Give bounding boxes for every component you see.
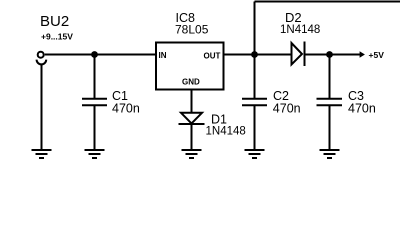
connector BU2: [37, 52, 47, 65]
capacitor C1: [82, 99, 107, 105]
node +5V arrow: [360, 51, 365, 58]
wire C3 to ground: [329, 105, 331, 150]
wire D1 to ground: [191, 124, 193, 150]
wire BU2 to IC8 IN: [45, 54, 155, 56]
svg-text:+9...15V: +9...15V: [41, 32, 73, 42]
svg-text:BU2: BU2: [40, 13, 69, 30]
svg-text:+5V: +5V: [369, 50, 385, 60]
wire junction up to top rail: [254, 2, 256, 55]
svg-text:78L05: 78L05: [175, 23, 209, 37]
svg-text:OUT: OUT: [204, 52, 221, 61]
wire junction to +5V arrow: [330, 54, 361, 56]
IC8 78L05 body: [156, 43, 224, 90]
capacitor C2: [242, 99, 267, 105]
svg-text:1N4148: 1N4148: [206, 126, 246, 138]
capacitor C3: [317, 99, 343, 105]
svg-text:470n: 470n: [348, 102, 376, 116]
diode D2: [292, 42, 305, 67]
node junction above C1: [91, 51, 98, 58]
wire top rail to right edge: [255, 1, 400, 3]
wire C2 to ground: [254, 105, 256, 150]
svg-text:470n: 470n: [273, 102, 301, 116]
svg-text:1N4148: 1N4148: [280, 24, 320, 36]
svg-text:D1: D1: [211, 113, 227, 127]
wire junction down to C3: [329, 55, 331, 99]
ground (C2): [245, 150, 265, 158]
ground (BU2): [32, 150, 52, 158]
wire rail to C1: [94, 55, 96, 99]
svg-text:IN: IN: [159, 51, 167, 60]
wire BU2 sleeve to ground: [41, 64, 43, 150]
wire D2 to junction: [305, 54, 330, 56]
wire IC8 GND to D1: [191, 90, 193, 113]
svg-text:GND: GND: [182, 78, 200, 87]
svg-text:D2: D2: [285, 10, 302, 25]
ground (C1): [85, 150, 105, 158]
wire junction down to C2: [254, 55, 256, 99]
ground (D1): [182, 150, 202, 158]
node junction above C2: [251, 51, 258, 58]
node junction above C3: [326, 51, 333, 58]
svg-text:470n: 470n: [112, 102, 140, 116]
ground (C3): [320, 150, 340, 158]
wire IC8 OUT to D2: [224, 54, 292, 56]
diode D1: [179, 113, 205, 124]
wire C1 to ground: [94, 105, 96, 150]
